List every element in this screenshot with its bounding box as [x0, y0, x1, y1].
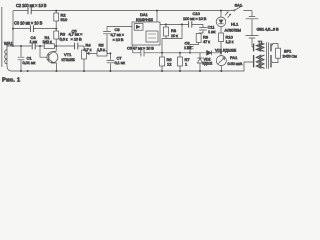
scan edge streak — [1, 7, 2, 67]
diode VD1 — [207, 50, 212, 55]
svg-text:10 к: 10 к — [171, 33, 178, 38]
capacitor C3 — [30, 25, 33, 32]
resistor R10 — [220, 27, 222, 33]
capacitor C4 — [32, 43, 35, 50]
svg-text:РА1: РА1 — [230, 55, 238, 60]
node junction R7 bottom — [179, 70, 181, 72]
wire LED branch — [220, 11, 222, 17]
node junction top rail / R2 — [55, 10, 57, 12]
meter PA1 — [220, 53, 222, 56]
capacitor C5 — [75, 43, 78, 50]
resistor R11 — [198, 32, 200, 34]
LED HL1 — [216, 17, 226, 27]
svg-text:Рис. 1: Рис. 1 — [2, 78, 21, 84]
svg-text:С2 100 мк × 10 В: С2 100 мк × 10 В — [16, 3, 47, 8]
node junction R4 bottom — [83, 70, 85, 72]
wire base branch — [40, 46, 47, 57]
node junction R6 bottom — [161, 70, 163, 72]
svg-text:0,01 мк: 0,01 мк — [23, 60, 36, 65]
svg-text:5,6 к: 5,6 к — [60, 36, 68, 41]
svg-text:4,7 к: 4,7 к — [84, 47, 92, 52]
svg-text:КД102: КД102 — [203, 62, 213, 66]
node junction R5 / C7 / C8 — [109, 52, 111, 54]
wire C3 row — [13, 28, 56, 30]
svg-text:2×50 Ом: 2×50 Ом — [283, 54, 298, 59]
resistor R6 — [161, 53, 163, 57]
svg-text:КТ315Б: КТ315Б — [62, 57, 76, 62]
svg-text:510: 510 — [61, 17, 68, 22]
capacitor C11 — [199, 24, 207, 33]
svg-text:1 мк: 1 мк — [184, 45, 192, 50]
resistor R3 — [55, 29, 57, 31]
wire R8 bottom link — [162, 24, 182, 52]
node junction R8 top — [165, 23, 167, 25]
svg-text:1,5 к: 1,5 к — [97, 47, 105, 52]
svg-text:С6 47 мк × 10 В: С6 47 мк × 10 В — [127, 46, 154, 51]
capacitor C9 — [186, 44, 193, 52]
wire battery drop — [251, 11, 253, 16]
node junction top rail / DA1 — [156, 10, 158, 12]
svg-text:1 мк: 1 мк — [30, 39, 38, 44]
resistor R1 — [44, 44, 54, 49]
node junction VT1 emitter bottom — [55, 70, 57, 72]
capacitor C8 — [103, 26, 111, 53]
phone BF1 — [276, 48, 281, 58]
node junction C3 wire / R2-R3 — [55, 28, 57, 30]
wire DA1 input — [107, 25, 132, 27]
svg-text:1: 1 — [185, 62, 188, 67]
node junction antenna bottom — [27, 70, 29, 72]
svg-text:АЛ307БМ: АЛ307БМ — [225, 28, 241, 33]
node junction output/182 — [181, 23, 183, 25]
resistor R5 — [97, 51, 107, 56]
wire bottom rail — [11, 62, 253, 71]
op-amp U1 / IC DA1 box — [132, 22, 160, 45]
svg-text:0,1 мк: 0,1 мк — [115, 60, 126, 65]
node junction 162/53 — [161, 52, 163, 54]
svg-text:47 к: 47 к — [203, 39, 210, 44]
capacitor C1 — [18, 46, 25, 71]
potentiometer R4 — [83, 46, 85, 50]
battery GB1 — [246, 16, 259, 47]
svg-text:VD1 КД102Б: VD1 КД102Б — [215, 48, 237, 53]
wire left rail vertical — [12, 11, 14, 46]
capacitor C2 — [28, 7, 31, 14]
resistor R8 — [165, 24, 167, 27]
capacitor C6 — [133, 45, 162, 56]
node junction 190/53 — [189, 52, 191, 54]
node junction C1 bottom — [20, 70, 22, 72]
svg-text:HL1: HL1 — [231, 21, 239, 26]
wire secondary to BF1 — [272, 44, 278, 49]
diode VD2 — [197, 53, 202, 71]
svg-text:× 10 В: × 10 В — [71, 36, 83, 41]
svg-text:GB1 4,5...9 В: GB1 4,5...9 В — [257, 26, 280, 31]
wire detector row y53 — [162, 52, 221, 54]
wire top rail — [13, 10, 234, 12]
svg-text:1 мк: 1 мк — [208, 29, 216, 34]
node junction 180/53 — [179, 52, 181, 54]
svg-text:К118УН1Б: К118УН1Б — [136, 17, 154, 22]
svg-text:С3 10 мк × 10 В: С3 10 мк × 10 В — [14, 21, 43, 26]
svg-text:SA1: SA1 — [235, 2, 243, 7]
svg-text:× 10 В: × 10 В — [113, 37, 124, 42]
svg-text:100 мк × 10 В: 100 мк × 10 В — [183, 16, 207, 21]
node junction meter — [220, 52, 222, 54]
node junction left rail / C3 wire — [12, 28, 14, 30]
resistor R7 — [179, 53, 181, 57]
node junction base — [39, 45, 41, 47]
capacitor C10 — [189, 21, 192, 27]
wire signal row y46 — [7, 45, 84, 47]
svg-text:WA1: WA1 — [4, 41, 13, 46]
wire DA1 power pin — [156, 11, 158, 22]
resistor R2 — [55, 11, 57, 13]
node junction VD2 bottom — [199, 70, 201, 72]
node junction collector — [55, 45, 57, 47]
node junction C1 — [20, 45, 22, 47]
transistor VT1 — [47, 52, 58, 63]
capacitor C7 — [107, 53, 115, 71]
node junction PA1 bottom — [220, 70, 222, 72]
svg-text:240 к: 240 к — [43, 39, 52, 44]
wire DA1 output row — [160, 23, 203, 25]
node junction rail / signal wire — [12, 45, 14, 47]
node junction top rail / LED — [220, 10, 222, 12]
svg-text:0-50 мкА: 0-50 мкА — [228, 61, 243, 66]
svg-text:1,2 к: 1,2 к — [226, 39, 234, 44]
node junction C7 bottom — [109, 70, 111, 72]
svg-text:12: 12 — [167, 62, 172, 67]
